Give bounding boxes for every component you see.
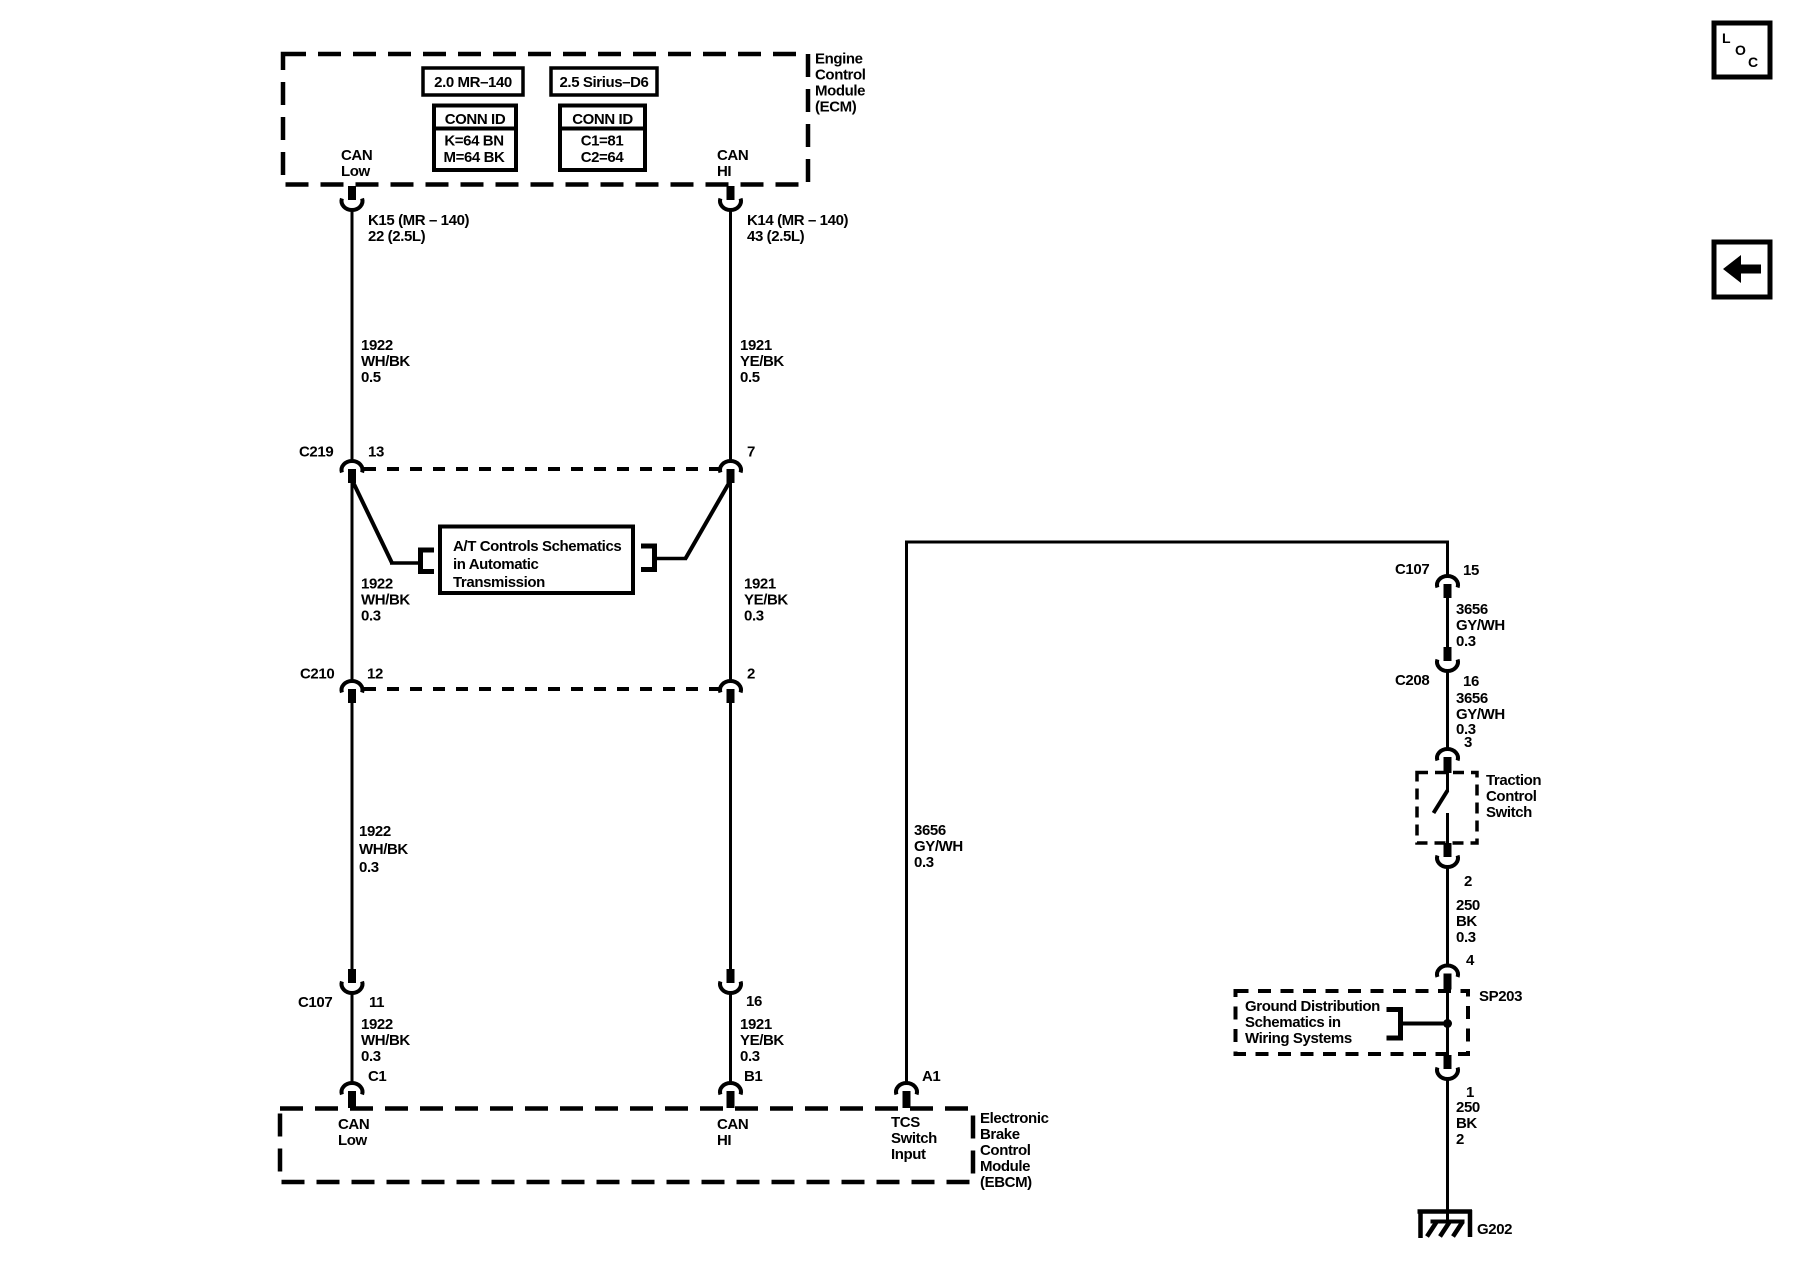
wire through SP203 (1446, 988, 1449, 1057)
svg-text:K=64 BN: K=64 BN (444, 133, 503, 150)
wire CAN Low middle segment (351, 481, 354, 680)
connector C208 (stub and cup) (1437, 647, 1458, 671)
connector at traction switch pin 3 (dome and stub) (1437, 749, 1458, 773)
junction dot SP203 (1443, 1019, 1452, 1028)
svg-text:C107: C107 (298, 994, 332, 1011)
wire branch diagonal left to A/T box (353, 482, 419, 563)
svg-text:G202: G202 (1477, 1221, 1512, 1238)
module EBCM dashed box (280, 1109, 973, 1183)
CONN ID table left (K=64 BN / M=64 BK) (434, 106, 516, 171)
svg-text:C208: C208 (1395, 672, 1429, 689)
svg-text:CONN ID: CONN ID (445, 111, 506, 128)
connector C107 pin 11 (stub and cup) (342, 969, 363, 993)
svg-text:O: O (1735, 42, 1746, 58)
svg-text:15: 15 (1463, 562, 1479, 579)
svg-text:A1: A1 (922, 1068, 940, 1085)
back arrow box (1714, 242, 1770, 297)
connector C210 pin 12 (dome and stub) (342, 681, 363, 703)
wire CAN HI upper segment (729, 211, 732, 460)
wire segment to ground G202 (1446, 1080, 1449, 1223)
svg-text:2: 2 (1464, 873, 1472, 890)
connector C219 pin 7 (dome and stub) (720, 461, 741, 483)
connector C107 pin 15 (dome and stub) (1437, 576, 1458, 598)
connector at SP203 pin 1 (stub and cup) (1437, 1055, 1458, 1079)
LOC reference box (1714, 23, 1770, 77)
ground symbol G202 (1418, 1210, 1473, 1238)
svg-text:SP203: SP203 (1479, 988, 1522, 1005)
connector at EBCM A1 (dome and stub) (896, 1083, 917, 1108)
wire CAN HI bottom segment (729, 994, 732, 1083)
bracket left of A/T box (421, 550, 435, 572)
svg-text:C: C (1748, 54, 1758, 70)
wire CAN Low bottom segment (351, 994, 354, 1083)
wire segment C107 to C208 (1446, 596, 1449, 649)
connector at EBCM B1 (dome and stub) (720, 1083, 741, 1108)
svg-text:CANLow: CANLow (338, 1116, 369, 1149)
svg-text:C1: C1 (368, 1068, 386, 1085)
wire CAN HI middle segment (729, 481, 732, 680)
traction control switch dashed box (1417, 773, 1477, 844)
wire TCS horizontal run (905, 541, 1449, 544)
svg-text:CONN ID: CONN ID (572, 111, 633, 128)
splice SP203 dashed box (1236, 991, 1469, 1054)
svg-text:4: 4 (1466, 952, 1475, 969)
svg-text:16: 16 (1463, 673, 1479, 690)
svg-text:7: 7 (747, 444, 755, 461)
svg-text:CANLow: CANLow (341, 147, 372, 180)
svg-text:C1=81: C1=81 (581, 133, 624, 150)
label box 2.0 MR-140 (423, 68, 523, 95)
wire TCS switch input vertical (905, 541, 908, 1084)
wire CAN HI lower segment (729, 701, 732, 970)
wire CAN Low lower segment (351, 701, 354, 970)
reference box A/T Controls Schematics (440, 527, 633, 594)
svg-text:M=64 BK: M=64 BK (444, 149, 506, 166)
bracket right of ground distribution text (1387, 1010, 1401, 1039)
switch contacts and blade (1434, 771, 1448, 844)
wire segment C208 to traction switch (1446, 672, 1449, 749)
svg-text:C2=64: C2=64 (581, 149, 625, 166)
svg-text:L: L (1722, 30, 1731, 46)
bracket right of A/T box (641, 546, 655, 570)
label box 2.5 Sirius-D6 (551, 68, 657, 95)
svg-text:2: 2 (747, 666, 755, 683)
connector at ECM CAN HI (stub and cup) (720, 186, 741, 210)
dashed connector line C210 (364, 687, 719, 691)
svg-text:B1: B1 (744, 1068, 762, 1085)
svg-text:16: 16 (746, 993, 762, 1010)
connector at ECM CAN Low (stub and cup) (342, 186, 363, 210)
connector C107 pin 16 (stub and cup) (720, 969, 741, 993)
wire branch diagonal right from A/T box (657, 483, 729, 559)
module ECM dashed box (283, 54, 808, 185)
connector at traction switch pin 2 (stub and cup) (1437, 843, 1458, 867)
wire down to C107 pin 15 (1446, 542, 1449, 576)
connector at SP203 pin 4 (dome and stub) (1437, 966, 1458, 990)
svg-text:11: 11 (369, 994, 384, 1011)
svg-text:13: 13 (368, 444, 384, 461)
svg-text:C219: C219 (299, 444, 333, 461)
connector C210 pin 2 (dome and stub) (720, 681, 741, 703)
dashed connector line C219 (364, 467, 719, 471)
svg-text:2.5 Sirius–D6: 2.5 Sirius–D6 (559, 74, 648, 91)
wire CAN Low upper segment (351, 211, 354, 460)
wire splice link (1400, 1022, 1448, 1026)
svg-text:3: 3 (1464, 734, 1472, 751)
CONN ID table right (C1=81 / C2=64) (560, 106, 645, 171)
wire segment switch to SP203 (1446, 868, 1449, 965)
svg-text:C210: C210 (300, 666, 334, 683)
connector C219 pin 13 (dome and stub) (342, 461, 363, 483)
svg-text:2.0 MR–140: 2.0 MR–140 (434, 74, 512, 91)
connector at EBCM C1 (dome and stub) (342, 1083, 363, 1108)
svg-text:C107: C107 (1395, 561, 1429, 578)
svg-text:12: 12 (367, 666, 383, 683)
